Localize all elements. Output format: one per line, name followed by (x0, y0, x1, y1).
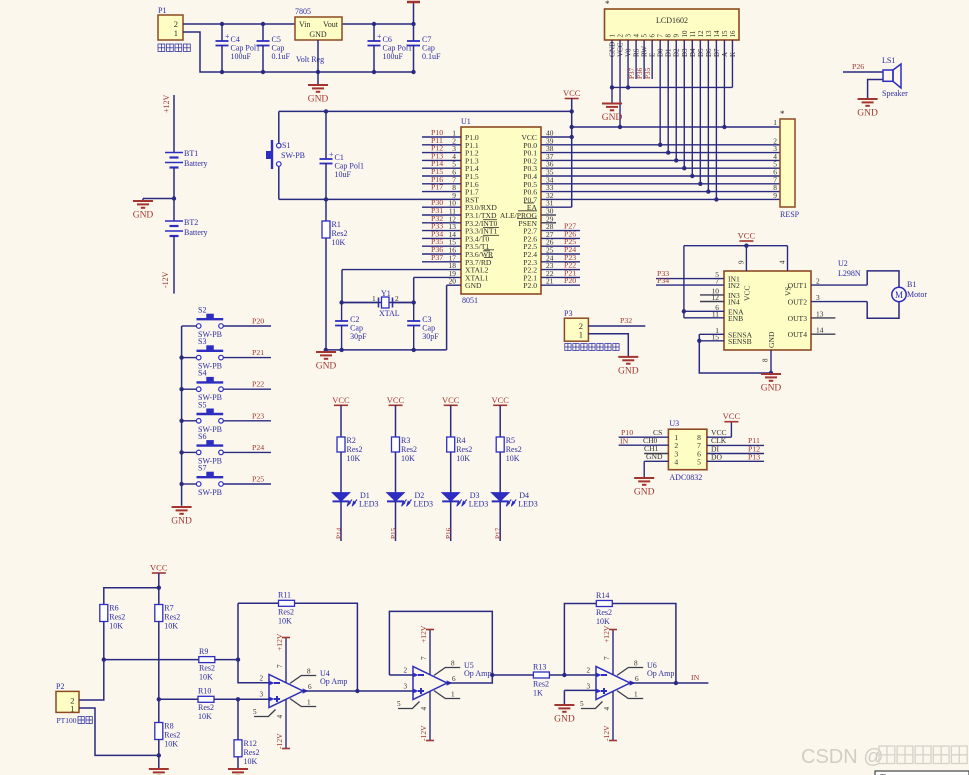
svg-text:LS1: LS1 (882, 56, 895, 65)
svg-text:P21: P21 (252, 348, 264, 357)
svg-text:Res2: Res2 (596, 608, 612, 617)
svg-text:P26: P26 (852, 62, 864, 71)
svg-text:VCC: VCC (150, 563, 168, 573)
svg-text:GND: GND (554, 715, 575, 725)
svg-text:Battery: Battery (184, 159, 208, 168)
svg-text:IN: IN (691, 673, 700, 682)
svg-text:B1: B1 (907, 280, 916, 289)
svg-text:GND: GND (602, 113, 623, 123)
svg-text:1: 1 (451, 691, 455, 699)
svg-text:14: 14 (713, 30, 721, 38)
svg-text:XTAL: XTAL (379, 309, 400, 318)
svg-text:P35: P35 (644, 67, 652, 79)
svg-text:+: + (329, 150, 334, 159)
svg-text:S6: S6 (198, 432, 206, 441)
svg-text:P17: P17 (431, 183, 443, 192)
svg-text:4: 4 (779, 260, 787, 264)
svg-text:R3: R3 (401, 436, 410, 445)
svg-text:M: M (895, 290, 903, 300)
svg-text:4: 4 (603, 707, 611, 711)
svg-text:3: 3 (260, 691, 264, 699)
svg-text:RESP: RESP (780, 210, 800, 219)
svg-text:Op Amp: Op Amp (320, 677, 347, 686)
svg-text:P20: P20 (564, 276, 576, 285)
svg-text:10K: 10K (164, 622, 178, 631)
svg-text:R4: R4 (456, 436, 465, 445)
svg-text:Res2: Res2 (456, 445, 472, 454)
svg-text:S3: S3 (198, 337, 206, 346)
svg-text:-12V: -12V (161, 271, 170, 288)
svg-text:GND: GND (133, 211, 154, 221)
svg-text:10uF: 10uF (335, 170, 352, 179)
svg-text:P37: P37 (431, 253, 443, 262)
svg-text:10K: 10K (401, 454, 415, 463)
svg-text:Op Amp: Op Amp (464, 669, 491, 678)
svg-text:R9: R9 (199, 647, 208, 656)
svg-text:IN2: IN2 (728, 281, 740, 290)
svg-text:1: 1 (70, 704, 74, 714)
svg-text:5: 5 (641, 34, 649, 38)
svg-text:SENSB: SENSB (728, 337, 752, 346)
svg-text:Res2: Res2 (278, 608, 294, 617)
svg-text:1: 1 (579, 330, 583, 340)
svg-text:+12V: +12V (162, 94, 171, 113)
svg-text:P14: P14 (336, 527, 344, 539)
svg-text:1K: 1K (533, 689, 543, 698)
svg-text:6: 6 (649, 34, 657, 38)
svg-text:16: 16 (729, 30, 737, 38)
svg-text:-12V: -12V (602, 725, 611, 741)
svg-text:VCC: VCC (332, 395, 350, 405)
svg-text:-12V: -12V (419, 725, 428, 741)
svg-text:+: + (377, 32, 382, 41)
svg-text:3: 3 (587, 683, 591, 691)
svg-text:Res2: Res2 (332, 229, 348, 238)
svg-text:4: 4 (674, 457, 678, 466)
svg-text:BT2: BT2 (184, 218, 198, 227)
svg-text:R8: R8 (164, 722, 173, 731)
svg-text:SW-PB: SW-PB (198, 488, 222, 497)
svg-text:2: 2 (260, 675, 264, 683)
svg-text:Vin: Vin (299, 20, 311, 29)
svg-text:OUT3: OUT3 (788, 314, 808, 323)
svg-text:1: 1 (174, 28, 178, 38)
svg-text:P36: P36 (636, 67, 644, 79)
svg-text:P25: P25 (252, 475, 264, 484)
svg-text:+12V: +12V (602, 625, 611, 643)
svg-text:P24: P24 (252, 443, 264, 452)
svg-text:VCC: VCC (491, 395, 509, 405)
svg-text:P16: P16 (445, 527, 453, 539)
svg-text:U2: U2 (838, 259, 848, 268)
svg-text:Res2: Res2 (401, 445, 417, 454)
svg-text:*: * (605, 0, 610, 9)
svg-text:P17: P17 (495, 527, 503, 539)
svg-text:SW-PB: SW-PB (281, 151, 305, 160)
svg-text:Res2: Res2 (164, 731, 180, 740)
svg-text:R10: R10 (198, 687, 211, 696)
svg-text:Res2: Res2 (244, 748, 260, 757)
svg-text:11: 11 (689, 30, 697, 37)
svg-text:U3: U3 (669, 419, 679, 428)
svg-text:+12V: +12V (419, 625, 428, 643)
svg-text:10K: 10K (198, 712, 212, 721)
svg-text:GND: GND (171, 517, 192, 527)
svg-text:9: 9 (738, 260, 746, 264)
svg-text:U1: U1 (461, 117, 471, 126)
svg-text:9: 9 (773, 191, 777, 200)
svg-text:30pF: 30pF (350, 332, 367, 341)
svg-text:2: 2 (587, 667, 591, 675)
svg-text:S5: S5 (198, 400, 206, 409)
svg-text:GND: GND (316, 362, 337, 372)
svg-text:8: 8 (762, 358, 770, 362)
svg-text:L298N: L298N (838, 269, 861, 278)
svg-text:13: 13 (816, 309, 824, 318)
svg-text:12: 12 (697, 30, 705, 38)
svg-text:GND: GND (465, 281, 482, 290)
svg-text:5: 5 (580, 700, 584, 708)
svg-text:7: 7 (657, 34, 665, 38)
svg-text:-12V: -12V (275, 733, 284, 749)
svg-text:Res2: Res2 (506, 445, 522, 454)
svg-text:IN4: IN4 (728, 298, 740, 307)
svg-text:8: 8 (665, 34, 673, 38)
svg-text:GND: GND (634, 488, 655, 498)
svg-text:R13: R13 (533, 663, 546, 672)
svg-text:6: 6 (308, 683, 312, 691)
svg-text:R11: R11 (278, 591, 291, 600)
svg-text:10K: 10K (164, 740, 178, 749)
svg-text:Res2: Res2 (533, 680, 549, 689)
svg-text:7: 7 (603, 656, 611, 660)
svg-text:4: 4 (420, 707, 428, 711)
svg-text:30pF: 30pF (422, 332, 439, 341)
svg-text:1: 1 (609, 34, 617, 38)
svg-text:7805: 7805 (295, 7, 311, 16)
svg-text:BT1: BT1 (184, 149, 198, 158)
svg-text:5: 5 (697, 457, 701, 466)
svg-text:5: 5 (397, 700, 401, 708)
svg-text:6: 6 (635, 675, 639, 683)
svg-text:Vout: Vout (323, 20, 339, 29)
svg-text:GND: GND (761, 384, 782, 394)
svg-text:R1: R1 (332, 220, 341, 229)
svg-text:P2.0: P2.0 (523, 281, 537, 290)
svg-text:1: 1 (307, 699, 311, 707)
svg-text:2: 2 (395, 294, 399, 303)
svg-text:9: 9 (673, 34, 681, 38)
svg-text:Res2: Res2 (198, 703, 214, 712)
svg-text:OUT2: OUT2 (788, 298, 808, 307)
svg-text:R6: R6 (109, 604, 118, 613)
svg-text:P15: P15 (390, 527, 398, 539)
svg-text:CSDN @: CSDN @ (801, 746, 884, 768)
svg-text:VCC: VCC (442, 395, 460, 405)
svg-text:Battery: Battery (184, 228, 208, 237)
svg-text:0.1uF: 0.1uF (272, 52, 291, 61)
svg-text:10K: 10K (332, 238, 346, 247)
svg-text:P37: P37 (628, 67, 636, 79)
svg-text:6: 6 (452, 675, 456, 683)
svg-text:0.1uF: 0.1uF (422, 52, 441, 61)
svg-text:2: 2 (617, 34, 625, 38)
svg-text:7: 7 (276, 664, 284, 668)
svg-text:10K: 10K (506, 454, 520, 463)
svg-text:Res2: Res2 (199, 664, 215, 673)
svg-text:ENB: ENB (728, 314, 743, 323)
svg-text:14: 14 (816, 326, 824, 335)
svg-text:VCC: VCC (738, 231, 756, 241)
svg-text:2: 2 (404, 667, 408, 675)
svg-text:P13: P13 (748, 453, 760, 462)
svg-text:LED3: LED3 (414, 500, 434, 509)
svg-text:VCC: VCC (742, 285, 751, 301)
svg-text:LED3: LED3 (518, 500, 538, 509)
svg-text:3: 3 (404, 683, 408, 691)
svg-text:Volt Reg: Volt Reg (296, 55, 324, 64)
svg-text:VCC: VCC (387, 395, 405, 405)
svg-text:+: + (225, 32, 230, 41)
svg-text:13: 13 (705, 30, 713, 38)
svg-text:OUT1: OUT1 (788, 281, 808, 290)
svg-text:R12: R12 (244, 739, 257, 748)
svg-text:4: 4 (633, 34, 641, 38)
svg-text:Res2: Res2 (347, 445, 363, 454)
svg-text:15: 15 (721, 30, 729, 38)
svg-text:P34: P34 (657, 276, 669, 285)
svg-text:S7: S7 (198, 464, 206, 473)
svg-text:10K: 10K (278, 617, 292, 626)
svg-text:P22: P22 (252, 380, 264, 389)
svg-text:LED3: LED3 (469, 500, 489, 509)
svg-text:P23: P23 (252, 411, 264, 420)
svg-text:R2: R2 (347, 436, 356, 445)
svg-text:*: * (780, 109, 785, 119)
svg-text:DO: DO (711, 453, 722, 462)
svg-text:100uF: 100uF (231, 52, 252, 61)
svg-text:P20: P20 (252, 317, 264, 326)
svg-text:LED3: LED3 (359, 500, 379, 509)
svg-text:3: 3 (816, 293, 820, 302)
svg-text:8051: 8051 (462, 296, 478, 305)
svg-text:OUT4: OUT4 (788, 330, 808, 339)
svg-text:+12V: +12V (275, 633, 284, 651)
svg-text:VCC: VCC (563, 88, 581, 98)
svg-text:S4: S4 (198, 369, 206, 378)
svg-text:10K: 10K (109, 622, 123, 631)
svg-text:P3: P3 (564, 309, 572, 318)
svg-text:ADC0832: ADC0832 (669, 473, 702, 482)
svg-text:10K: 10K (244, 757, 258, 766)
svg-text:1: 1 (634, 691, 638, 699)
svg-text:VCC: VCC (723, 411, 741, 421)
svg-text:GND: GND (309, 30, 327, 39)
svg-text:GND: GND (618, 366, 639, 376)
svg-text:Speaker: Speaker (882, 89, 908, 98)
svg-text:Op Amp: Op Amp (647, 669, 674, 678)
svg-text:4: 4 (276, 715, 284, 719)
svg-text:P2: P2 (56, 682, 64, 691)
svg-text:GND: GND (767, 331, 776, 348)
svg-text:P1: P1 (158, 6, 166, 15)
svg-text:PT100: PT100 (57, 716, 77, 725)
svg-text:GND: GND (646, 452, 663, 461)
svg-text:P32: P32 (620, 316, 632, 325)
svg-text:R7: R7 (164, 604, 173, 613)
svg-text:GND: GND (857, 109, 878, 119)
svg-text:8: 8 (634, 660, 638, 668)
svg-text:R5: R5 (506, 436, 515, 445)
svg-text:Res2: Res2 (164, 613, 180, 622)
svg-text:2: 2 (816, 277, 820, 286)
svg-text:S1: S1 (282, 141, 290, 150)
svg-text:10K: 10K (347, 454, 361, 463)
svg-text:S2: S2 (198, 306, 206, 315)
svg-text:5: 5 (253, 708, 257, 716)
svg-text:Motor: Motor (907, 290, 927, 299)
svg-text:LCD1602: LCD1602 (656, 16, 688, 25)
svg-text:10: 10 (681, 30, 689, 38)
svg-text:10K: 10K (199, 673, 213, 682)
svg-text:R14: R14 (596, 591, 609, 600)
svg-text:7: 7 (420, 656, 428, 660)
svg-text:GND: GND (308, 95, 329, 105)
svg-text:Res2: Res2 (109, 613, 125, 622)
svg-text:1: 1 (773, 118, 777, 127)
svg-text:8: 8 (307, 668, 311, 676)
svg-text:IN: IN (620, 437, 629, 446)
svg-text:10K: 10K (596, 617, 610, 626)
svg-text:10K: 10K (456, 454, 470, 463)
svg-text:8: 8 (451, 660, 455, 668)
svg-text:3: 3 (625, 34, 633, 38)
svg-text:1: 1 (372, 294, 376, 303)
svg-text:100uF: 100uF (383, 52, 404, 61)
